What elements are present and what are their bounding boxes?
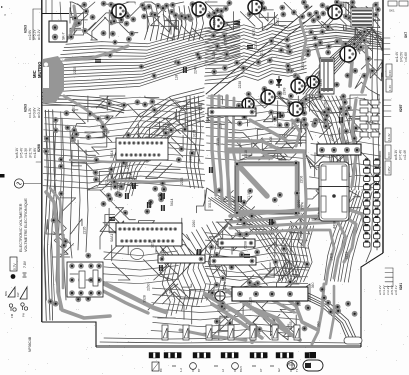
- transistor T1: [112, 4, 126, 18]
- svg-text:360: 360: [317, 321, 321, 327]
- capacitor C2: [161, 193, 165, 199]
- resistor box R4: [218, 239, 255, 247]
- wide trace bottom-right verticals: [312, 284, 334, 344]
- svg-text:2253: 2253: [301, 62, 305, 70]
- diode D1: [276, 76, 282, 88]
- svg-text:X7: X7: [259, 368, 263, 372]
- wire bundle left-mid verticals: [44, 110, 55, 321]
- pad cluster bottom strip: [209, 282, 311, 333]
- svg-text:c=1.3V: c=1.3V: [24, 147, 28, 158]
- doc number: [28, 336, 32, 352]
- svg-text:2255: 2255: [289, 321, 293, 329]
- svg-text:118: 118: [161, 127, 165, 133]
- bottom legend symbols: [152, 362, 299, 372]
- left label MIC MUTING: [32, 61, 42, 78]
- svg-text:NP36C4B: NP36C4B: [28, 336, 32, 352]
- right label block 6281: [378, 268, 403, 295]
- svg-text:2251: 2251: [276, 18, 280, 26]
- transistor T10: [289, 102, 303, 116]
- wire overlay field mid-left: [43, 97, 205, 188]
- wire bundle top-right corner drop: [297, 30, 372, 95]
- wide trace bottom-left diagonal: [103, 283, 166, 313]
- pad cluster bottom-center: [216, 188, 300, 238]
- wire overlay field right-mid: [309, 98, 380, 190]
- svg-text:e=0.1V: e=0.1V: [394, 285, 398, 295]
- pad cluster resistor grid: [101, 180, 167, 215]
- wire bundle mid verticals: [186, 96, 202, 188]
- svg-text:2268: 2268: [104, 129, 108, 137]
- svg-text:2216: 2216: [249, 297, 253, 305]
- resistor box R1: [208, 108, 256, 116]
- svg-text:2235: 2235: [73, 66, 77, 74]
- svg-text:d=2.7V: d=2.7V: [29, 147, 33, 158]
- wire bundle mid-left sweep: [108, 88, 205, 196]
- svg-text:ELECTRONIC VOLTMETER: ELECTRONIC VOLTMETER: [19, 203, 23, 252]
- wire bundle top-center fan: [205, 22, 307, 84]
- svg-text:5414: 5414: [110, 150, 114, 158]
- wire bundle left column extra: [54, 118, 88, 310]
- wide trace central square outline: [234, 160, 299, 215]
- capacitor C16: [125, 193, 129, 199]
- svg-text:3307: 3307: [277, 79, 281, 87]
- capacitor C15: [147, 202, 151, 208]
- wide trace right-top: [300, 20, 368, 92]
- svg-text:221: 221: [169, 288, 173, 294]
- svg-text:b=7.4V: b=7.4V: [399, 149, 403, 160]
- capacitor C18: [244, 254, 250, 258]
- svg-text:6266: 6266: [199, 103, 203, 111]
- svg-text:c=4.2V: c=4.2V: [28, 107, 32, 118]
- capacitor C12: [95, 59, 101, 63]
- wire maze top strip right: [205, 2, 380, 30]
- svg-text:a=8.1V: a=8.1V: [394, 149, 398, 160]
- svg-text:6264: 6264: [224, 38, 228, 46]
- wire bundle bottom strip 2: [298, 292, 356, 341]
- wire bundle bottom-right S: [324, 190, 372, 282]
- svg-text:2219: 2219: [344, 252, 348, 260]
- socket symbol FM: [9, 304, 16, 318]
- wide trace mid-left horizontals: [70, 160, 188, 182]
- left label block 6263 lower: [24, 104, 42, 118]
- right label block 6267: [383, 100, 407, 175]
- wire maze bottom-left quad: [100, 190, 205, 280]
- right label A5A: [377, 93, 381, 100]
- svg-text:1.4V: 1.4V: [388, 85, 392, 91]
- wire maze center pocket: [240, 120, 306, 160]
- board border right-bottom: [361, 253, 383, 347]
- svg-text:KW: KW: [16, 292, 20, 297]
- svg-text:3374: 3374: [223, 282, 227, 290]
- left label block 6263 top: [24, 9, 42, 40]
- capacitor C5: [277, 112, 281, 118]
- transistor T6: [340, 46, 356, 62]
- svg-text:c=2.6V: c=2.6V: [28, 29, 32, 40]
- transistor T3: [210, 16, 224, 30]
- svg-text:T1: T1: [295, 368, 299, 372]
- svg-text:a=1.4V: a=1.4V: [395, 51, 399, 62]
- svg-text:3313: 3313: [208, 200, 212, 208]
- frame box bottom: [232, 287, 308, 301]
- svg-text:5.7V: 5.7V: [13, 263, 17, 270]
- wire maze left column low: [46, 198, 82, 257]
- svg-text:2267: 2267: [283, 264, 287, 272]
- svg-text:2206: 2206: [300, 176, 304, 184]
- svg-text:MW: MW: [4, 291, 8, 296]
- svg-text:2260: 2260: [324, 100, 328, 108]
- stadium small right: [344, 337, 362, 344]
- wire overlay field left column: [44, 110, 61, 302]
- left label voltmeter: [19, 198, 28, 252]
- board border bottom: [96, 345, 361, 347]
- svg-text:b=5.4V: b=5.4V: [20, 147, 24, 158]
- svg-text:2233: 2233: [180, 178, 184, 186]
- test point boxes bottom: [162, 325, 300, 340]
- svg-text:13.4V: 13.4V: [387, 133, 391, 141]
- svg-text:B0-5: B0-5: [239, 366, 243, 372]
- meter symbol: [14, 179, 41, 188]
- capacitor C8: [109, 217, 115, 221]
- svg-text:SK7: SK7: [404, 32, 408, 38]
- svg-text:PH: PH: [22, 313, 26, 317]
- copper pour blob left: [43, 56, 64, 104]
- capacitor C3: [161, 205, 165, 211]
- right label block SK top: [383, 32, 408, 92]
- svg-text:MUTING: MUTING: [37, 61, 42, 78]
- svg-text:2262: 2262: [125, 162, 129, 170]
- value labels sprinkle: [72, 18, 348, 329]
- svg-text:2218: 2218: [244, 150, 248, 158]
- large component box right (relay/cap): [319, 162, 349, 221]
- svg-text:5414: 5414: [170, 198, 174, 206]
- svg-text:3374: 3374: [301, 202, 305, 210]
- svg-text:562: 562: [206, 117, 210, 123]
- pad cluster center transistors: [236, 73, 331, 128]
- svg-text:2238: 2238: [238, 81, 242, 89]
- svg-text:0.6V: 0.6V: [387, 152, 391, 158]
- svg-text:3374L: 3374L: [161, 248, 165, 258]
- wire bundle top-left lower tail: [43, 96, 125, 113]
- svg-text:2243: 2243: [193, 66, 197, 74]
- left edge tick: [0, 174, 5, 178]
- svg-text:6267: 6267: [399, 104, 403, 112]
- transistor T5: [328, 5, 342, 19]
- svg-text:3396: 3396: [319, 79, 323, 87]
- wire long diagonal: [206, 6, 318, 95]
- wire long diagonal bottom: [148, 196, 252, 310]
- svg-text:360: 360: [311, 282, 315, 288]
- wide trace central square outer ring: [228, 152, 306, 246]
- wire overlay field center-mid: [205, 98, 306, 161]
- svg-text:5414: 5414: [287, 105, 291, 113]
- connector box SK-7: [49, 21, 67, 42]
- pad cluster left column lower: [48, 217, 69, 306]
- board border bottom-left step: [42, 322, 96, 347]
- wire bundle top-left verticals: [145, 6, 204, 41]
- pad cluster top strip right: [206, 0, 381, 21]
- capacitor C10: [339, 117, 343, 123]
- pad cluster mid-left lower: [93, 146, 195, 190]
- svg-text:3328: 3328: [143, 295, 147, 303]
- svg-text:2210: 2210: [259, 49, 263, 57]
- svg-text:2253: 2253: [117, 185, 121, 193]
- svg-text:6270: 6270: [72, 106, 76, 114]
- wire maze mid-left: [72, 96, 200, 190]
- wire bundle top-left horizontal fan: [43, 20, 241, 93]
- svg-text:472: 472: [105, 180, 109, 186]
- board border right: [382, 0, 384, 253]
- svg-text:SK1: SK1: [389, 9, 395, 13]
- top-left corner marks: [1, 4, 7, 16]
- transistor T8: [291, 79, 305, 93]
- svg-text:3135: 3135: [193, 130, 197, 138]
- ellipse marker: [131, 249, 144, 260]
- svg-text:2284: 2284: [148, 200, 152, 208]
- wire overlay field bottom-left: [104, 251, 179, 284]
- pad cluster mid-left: [64, 99, 188, 143]
- capacitor C13: [247, 45, 253, 49]
- top-right corner boxes: [388, 1, 408, 13]
- svg-text:2235: 2235: [82, 227, 86, 235]
- svg-text:3396: 3396: [189, 155, 193, 163]
- capacitor C4: [234, 21, 240, 25]
- wide trace center staircase: [228, 120, 304, 158]
- svg-text:7.8V: 7.8V: [23, 260, 27, 268]
- svg-text:1408: 1408: [329, 253, 333, 261]
- board border left: [41, 0, 43, 322]
- transistor T11: [242, 98, 254, 110]
- svg-text:L2: L2: [221, 368, 225, 372]
- bottom right plug symbol: [287, 361, 297, 370]
- pad cluster left column: [43, 117, 64, 197]
- capacitor C11: [209, 167, 213, 173]
- svg-text:6281: 6281: [399, 283, 403, 290]
- svg-text:6268: 6268: [37, 144, 41, 152]
- connector stub column right: [364, 158, 380, 247]
- svg-text:G2: G2: [277, 368, 281, 372]
- svg-text:2271: 2271: [151, 240, 155, 248]
- transistor T7: [261, 90, 275, 104]
- svg-text:2290: 2290: [147, 283, 151, 291]
- svg-text:3135: 3135: [216, 138, 220, 146]
- svg-text:SAA1: SAA1: [110, 234, 114, 242]
- transistor T9: [307, 76, 319, 88]
- capacitor C1: [132, 183, 136, 189]
- capacitor C9: [197, 249, 201, 255]
- svg-text:6270: 6270: [252, 29, 256, 37]
- svg-text:VOLTMETRE ELECTRONIQUE: VOLTMETRE ELECTRONIQUE: [24, 198, 28, 252]
- resistor box R2: [210, 257, 256, 265]
- svg-text:129: 129: [219, 123, 223, 129]
- wire bundle IC2 chevron: [156, 222, 226, 318]
- svg-text:2284: 2284: [213, 18, 217, 26]
- relay box right: [320, 58, 334, 94]
- trimmer VR1: [215, 291, 225, 301]
- frame box right: [317, 144, 361, 155]
- bottom stadium connector: [303, 360, 323, 371]
- wire bundle bottom S-curves: [278, 226, 314, 283]
- svg-text:a=8.1V: a=8.1V: [15, 147, 19, 158]
- wire maze right of bands: [306, 188, 360, 220]
- wire bundle bottom-center radial: [208, 196, 300, 280]
- wire overlay field bottom-center: [205, 230, 308, 287]
- bottom black square: [310, 352, 317, 358]
- pad cluster right-top: [308, 18, 375, 88]
- label central square: [246, 190, 303, 238]
- transistor T4: [248, 0, 262, 14]
- svg-text:2233: 2233: [129, 172, 133, 180]
- svg-text:6263: 6263: [24, 25, 28, 33]
- wire overlay field bottom strip: [151, 288, 300, 335]
- svg-text:FM: FM: [10, 313, 14, 318]
- pad cluster top strip: [72, 1, 201, 23]
- wire maze right-mid: [306, 95, 380, 190]
- wire maze right column top: [355, 20, 382, 95]
- svg-text:2249: 2249: [283, 87, 287, 95]
- wire maze center mid: [205, 96, 306, 160]
- wide trace right column: [342, 100, 356, 188]
- svg-text:B7: B7: [197, 368, 201, 372]
- IC box U2: [110, 223, 182, 246]
- capacitor C6: [269, 219, 273, 225]
- pad cluster bottom right: [319, 287, 357, 317]
- svg-text:118: 118: [175, 75, 179, 81]
- capacitor C14: [183, 67, 187, 73]
- socket symbol PH: [21, 303, 28, 317]
- capacitor C17: [238, 196, 242, 202]
- svg-text:b=0.8V: b=0.8V: [33, 107, 37, 118]
- module box bottom-left: [67, 262, 103, 297]
- svg-text:▸: ▸: [1, 4, 3, 9]
- IC module box U1: [110, 138, 168, 160]
- pad cluster top-center: [211, 29, 326, 75]
- svg-text:B0: B0: [159, 368, 163, 372]
- svg-text:A5A: A5A: [377, 93, 381, 100]
- wire bundle top-right diagonal: [306, 24, 382, 51]
- aerial symbol MW: [4, 287, 15, 297]
- solder pad blocks bottom: [149, 353, 316, 359]
- svg-text:6263: 6263: [24, 104, 28, 112]
- svg-text:6269: 6269: [212, 51, 216, 59]
- connector stub column right top: [360, 100, 379, 137]
- left label block 6268: [15, 144, 42, 162]
- wire maze bottom-center: [205, 188, 310, 290]
- wire maze bottom strip: [158, 284, 310, 340]
- pad cluster top-left mid: [63, 18, 135, 42]
- svg-text:1408: 1408: [269, 136, 273, 144]
- wire right border parallels: [366, 2, 379, 262]
- svg-text:2218: 2218: [301, 104, 305, 112]
- transistor T2: [192, 2, 206, 16]
- wide trace top-left from blob: [64, 6, 128, 132]
- svg-text:a=5.1V: a=5.1V: [37, 29, 41, 40]
- capacitor C7: [159, 265, 163, 271]
- resistor box R3: [158, 255, 205, 263]
- svg-text:b=0.5V: b=0.5V: [400, 51, 404, 62]
- svg-text:0.6V: 0.6V: [388, 70, 392, 76]
- pad cluster right-mid: [311, 94, 358, 142]
- svg-text:2260: 2260: [192, 220, 196, 228]
- svg-text:2207: 2207: [253, 105, 257, 113]
- wire maze top strip: [70, 2, 204, 40]
- pad cluster bottom mid: [209, 239, 310, 301]
- svg-text:4.35V: 4.35V: [387, 166, 391, 174]
- svg-text:c=0.6V: c=0.6V: [404, 51, 408, 62]
- svg-text:2259: 2259: [330, 133, 334, 141]
- svg-text:1-6: 1-6: [179, 368, 183, 372]
- wire bottom border parallels: [100, 338, 356, 343]
- wire stubs above SK-7: [46, 0, 61, 20]
- svg-text:c=2.4V: c=2.4V: [403, 149, 407, 160]
- wide trace horizontal band right: [230, 208, 366, 284]
- svg-text:4408: 4408: [332, 221, 336, 229]
- wide trace vertical bundle center-left: [212, 96, 235, 205]
- board border top-left notch: [42, 13, 69, 15]
- left label 7.8V battery: [10, 257, 27, 279]
- striped IC top-right: [351, 8, 373, 27]
- pad sprinkle in fan: [108, 40, 202, 79]
- svg-text:472: 472: [237, 230, 241, 236]
- aerial symbol KW: [16, 287, 27, 299]
- wide trace left hook: [46, 188, 110, 318]
- svg-text:2219: 2219: [254, 41, 258, 49]
- svg-text:a=0.1V: a=0.1V: [37, 107, 41, 118]
- wide trace bottom-center splotches: [180, 288, 318, 342]
- svg-text:6268: 6268: [243, 241, 247, 249]
- pad cluster bottom-left box: [70, 253, 104, 302]
- wire bundle right-mid fan: [306, 96, 360, 191]
- svg-text:SK-7: SK-7: [62, 32, 66, 40]
